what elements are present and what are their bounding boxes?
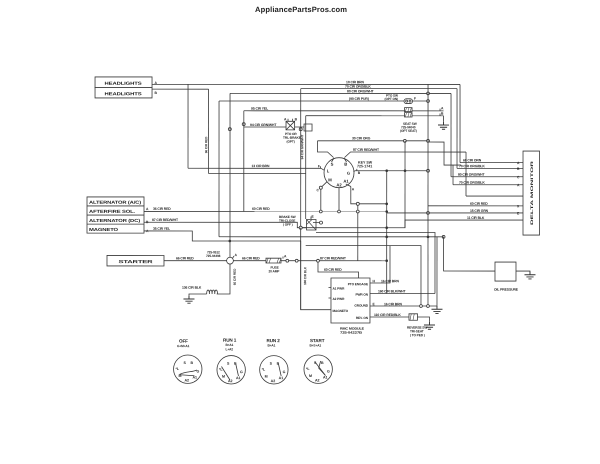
wire 160 CIR BLK/WHT pwr on <box>370 293 435 295</box>
vertical from headlight A <box>187 84 189 168</box>
svg-text:70 CIR ORG/BLK: 70 CIR ORG/BLK <box>459 181 485 185</box>
svg-text:(OPT ON): (OPT ON) <box>385 97 399 101</box>
pin A seat <box>439 109 441 111</box>
svg-text:136 CIR BLK: 136 CIR BLK <box>182 286 202 290</box>
delta row blank <box>466 195 523 197</box>
A1 drop and jog <box>351 187 387 204</box>
bottom switch position circle RUN 1 <box>217 356 245 384</box>
wire 16 CIR BRN pto engage <box>370 246 390 283</box>
terminal G <box>354 171 355 172</box>
svg-text:B: B <box>358 171 361 175</box>
svg-text:GROUND: GROUND <box>354 304 368 308</box>
svg-text:94 CIR GRN/WHT: 94 CIR GRN/WHT <box>300 135 304 160</box>
svg-text:PWR ON: PWR ON <box>355 293 368 297</box>
svg-text:HEADLIGHTS: HEADLIGHTS <box>105 81 142 86</box>
A2 drop to bus <box>338 189 340 212</box>
wire 70 CIR ORG/BLK upper rail <box>301 88 457 90</box>
headlight connector box 2 <box>95 87 152 98</box>
delta row A 60 CIR ORN <box>460 162 523 164</box>
svg-text:36 CIR RED: 36 CIR RED <box>153 207 171 211</box>
svg-text:B: B <box>190 361 193 365</box>
svg-text:100 CIR BLK: 100 CIR BLK <box>303 266 307 285</box>
alternator connector block <box>87 197 144 233</box>
svg-text:87 CIR RED/WHT: 87 CIR RED/WHT <box>320 256 347 260</box>
svg-text:B: B <box>155 91 158 95</box>
svg-text:C: C <box>517 175 520 179</box>
svg-text:M: M <box>222 375 225 379</box>
svg-text:A2 PWR: A2 PWR <box>332 297 345 301</box>
wire 136 CIR BLK <box>189 294 207 296</box>
svg-text:( TO PED ): ( TO PED ) <box>410 333 425 337</box>
svg-text:A: A <box>441 106 444 110</box>
node 30 ORG / v428 <box>427 139 430 142</box>
svg-text:E: E <box>517 211 520 215</box>
wire 110 CIR RED/BLK rev on <box>370 316 409 318</box>
svg-text:A: A <box>352 187 355 191</box>
svg-text:60 CIR RED: 60 CIR RED <box>470 202 488 206</box>
vertical x428 long <box>427 84 429 306</box>
wire 87 CIR RED/WHT from key B <box>345 152 467 158</box>
riser to S terminal <box>318 141 334 158</box>
wire 13 CIR BRN to key L <box>188 167 321 169</box>
svg-text:A: A <box>517 161 520 165</box>
svg-text:A: A <box>284 117 287 121</box>
bottom switch position circle START <box>304 355 332 383</box>
svg-text:G+M+A1: G+M+A1 <box>177 344 190 348</box>
seat row B wire <box>306 115 444 117</box>
wire 87 CIR RED/WHT alt <box>144 222 299 227</box>
vertical 90 PUR riser <box>218 101 220 237</box>
wire 35 CIR YEL magneto to RMC <box>144 231 301 241</box>
M drop to bus <box>319 186 322 189</box>
svg-text:A1: A1 <box>343 179 349 184</box>
svg-text:B: B <box>295 117 298 121</box>
svg-text:725-04227B: 725-04227B <box>340 331 363 335</box>
wire brake to v435 <box>316 233 435 294</box>
wire 30 CIR ORG <box>318 140 429 142</box>
svg-text:60 CIR RED: 60 CIR RED <box>324 268 342 272</box>
delta row E 15 CIR GRN <box>387 212 523 214</box>
svg-text:G: G <box>327 370 330 374</box>
svg-text:20 AMP: 20 AMP <box>268 269 280 273</box>
seat switch connector top <box>405 108 413 112</box>
svg-text:725-1741: 725-1741 <box>357 164 372 168</box>
svg-text:16 CIR BRN: 16 CIR BRN <box>384 302 402 306</box>
svg-text:110 CIR RED/BLK: 110 CIR RED/BLK <box>374 313 401 317</box>
delta row X 60 CIR RED <box>428 205 523 207</box>
svg-text:A1: A1 <box>279 376 284 380</box>
right riser x453 <box>428 142 461 165</box>
seat ground drop <box>443 116 445 122</box>
ground RMC <box>431 306 442 313</box>
svg-text:60 CIR RED: 60 CIR RED <box>252 207 270 211</box>
svg-text:16 CIR BRN: 16 CIR BRN <box>381 279 399 283</box>
key switch U1 body <box>324 158 354 188</box>
headlight connector box 1 <box>95 77 152 88</box>
svg-text:F: F <box>318 164 320 168</box>
vertical x386 bus <box>386 171 388 294</box>
svg-text:66 CIR RED: 66 CIR RED <box>242 256 260 260</box>
svg-text:A2: A2 <box>271 379 276 383</box>
delta row B 70 CIR ORG/BLK <box>457 167 523 169</box>
delta monitor box <box>523 151 540 235</box>
terminal A1 <box>346 184 351 187</box>
svg-text:MAGNETO: MAGNETO <box>89 227 119 232</box>
svg-text:A: A <box>234 253 237 257</box>
svg-text:80 CIR ORG/WHT: 80 CIR ORG/WHT <box>458 173 486 177</box>
svg-text:( OFF ): ( OFF ) <box>283 223 293 227</box>
wire headlight B <box>152 88 209 90</box>
svg-text:STARTER: STARTER <box>118 259 154 264</box>
terminal A2 <box>338 188 340 189</box>
terminal M <box>321 182 327 188</box>
connector pin box right of 94 wire <box>304 124 312 131</box>
svg-text:S: S <box>331 162 334 167</box>
svg-text:A2: A2 <box>184 378 189 382</box>
right riser x460 <box>459 84 461 162</box>
svg-text:B: B <box>441 112 444 116</box>
y236.8 rail extension to oil tap <box>437 236 444 238</box>
svg-text:B+A1: B+A1 <box>225 343 233 347</box>
svg-text:OIL PRESSURE: OIL PRESSURE <box>494 288 519 292</box>
svg-text:DELTA MONITOR: DELTA MONITOR <box>530 160 534 225</box>
svg-text:C: C <box>317 188 320 192</box>
svg-text:G: G <box>240 370 243 374</box>
svg-text:10 CIR BRN: 10 CIR BRN <box>346 80 364 84</box>
terminal L <box>321 168 325 170</box>
battery negative drop <box>217 264 230 294</box>
svg-text:35 CIR YEL: 35 CIR YEL <box>153 227 170 231</box>
starter box <box>107 255 164 266</box>
svg-text:60 CIR ORN: 60 CIR ORN <box>463 158 482 162</box>
node 30 ORG / x404 <box>403 139 406 142</box>
svg-text:160 CIR BLK/WHT: 160 CIR BLK/WHT <box>378 289 407 293</box>
node on v230 <box>228 128 231 131</box>
vertical 80 ORG/WHT riser <box>229 93 231 257</box>
RMC module U2 <box>331 278 370 323</box>
svg-text:13 CIR BRN: 13 CIR BRN <box>252 164 270 168</box>
bottom switch position circle OFF <box>174 355 202 383</box>
svg-text:RUN 1: RUN 1 <box>223 338 237 343</box>
seat switch connector bottom <box>405 113 413 117</box>
PTO switch connector <box>404 99 413 104</box>
oil pressure tap <box>442 235 445 238</box>
svg-text:66 CIR RED: 66 CIR RED <box>233 268 237 285</box>
right riser x466 <box>465 152 467 196</box>
svg-text:A1 PWR: A1 PWR <box>332 287 345 291</box>
svg-text:MAGNETO: MAGNETO <box>332 309 348 313</box>
svg-text:A: A <box>146 207 149 211</box>
vertical seat B riser x305 <box>305 116 307 219</box>
svg-text:RUN 2: RUN 2 <box>266 338 280 343</box>
svg-text:AFTERFIRE SOL.: AFTERFIRE SOL. <box>89 209 135 214</box>
wire y245.6 to ground riser <box>306 246 421 306</box>
svg-text:80 CIR ORG/WHT: 80 CIR ORG/WHT <box>347 89 375 93</box>
svg-text:M: M <box>309 374 312 378</box>
ground battery <box>183 296 194 303</box>
right riser x451 <box>450 93 452 176</box>
svg-text:L+A2: L+A2 <box>225 347 233 351</box>
battery coil <box>207 290 218 294</box>
svg-text:(OPT): (OPT) <box>287 140 295 144</box>
magneto wire drop to RMC <box>301 241 331 310</box>
svg-text:B+S+A1: B+S+A1 <box>309 344 321 348</box>
svg-text:A1: A1 <box>236 376 241 380</box>
vertical x437 ground drop <box>436 237 438 306</box>
svg-text:ALTERNATOR (DC): ALTERNATOR (DC) <box>89 218 141 223</box>
oil pressure ground <box>516 270 530 273</box>
svg-text:A2: A2 <box>228 379 233 383</box>
PTO/brake connector X-box <box>286 121 295 130</box>
svg-text:725-04408: 725-04408 <box>206 254 221 258</box>
delta row C 80 CIR ORG/WHT <box>451 176 523 178</box>
ground reverse <box>424 322 435 329</box>
wire 90 CIR PUR <box>219 100 404 102</box>
svg-text:A1: A1 <box>323 376 328 380</box>
pin B seat <box>439 114 441 116</box>
svg-text:REV. ON: REV. ON <box>356 316 369 320</box>
fuse F1 <box>266 258 281 263</box>
svg-text:L: L <box>327 168 330 173</box>
wire 66 CIR RED starter <box>164 260 227 262</box>
wire 94 CIR GRN/WHT <box>244 126 305 128</box>
wire 80 CIR ORG/WHT rail <box>230 92 451 94</box>
svg-text:94 CIR GRN/WHT: 94 CIR GRN/WHT <box>250 123 277 127</box>
svg-text:F: F <box>414 97 416 101</box>
svg-text:15 CIR GRN: 15 CIR GRN <box>470 209 489 213</box>
svg-text:G: G <box>347 171 350 176</box>
pin stubs left of RMC <box>328 288 331 299</box>
svg-text:A2: A2 <box>315 379 320 383</box>
wire 11 CIR BLK under brake <box>301 220 523 229</box>
terminal S <box>332 158 335 162</box>
node on v300 <box>299 128 302 131</box>
svg-text:M: M <box>328 177 332 182</box>
oil pressure switch box <box>495 262 516 281</box>
svg-text:G: G <box>283 370 286 374</box>
battery stud B1 <box>227 257 234 264</box>
wire 95 CIR YEL / seat row A <box>244 110 444 112</box>
vertical from headlight B <box>208 89 210 173</box>
svg-text:E: E <box>312 215 315 219</box>
svg-text:A: A <box>517 183 520 187</box>
junction v428 top <box>427 92 430 95</box>
svg-text:30 CIR ORG: 30 CIR ORG <box>352 136 371 140</box>
svg-text:PTO ENGAGE: PTO ENGAGE <box>348 282 368 286</box>
svg-text:(90 CIR PUR): (90 CIR PUR) <box>349 97 369 101</box>
svg-text:87 CIR RED/WHT: 87 CIR RED/WHT <box>353 148 380 152</box>
svg-text:HEADLIGHTS: HEADLIGHTS <box>105 91 142 96</box>
svg-text:X: X <box>517 204 520 208</box>
ground seat switch <box>438 122 449 129</box>
oil pressure feed <box>444 237 495 271</box>
vertical 95 YEL riser <box>243 111 245 212</box>
wire G to x428 <box>355 170 428 172</box>
reverse switch connector <box>409 314 418 320</box>
svg-text:A2: A2 <box>336 182 342 187</box>
svg-text:95 CIR YEL: 95 CIR YEL <box>251 107 268 111</box>
wire y236.8 rail <box>219 236 437 238</box>
svg-text:66 CIR RED: 66 CIR RED <box>176 256 194 260</box>
svg-text:B: B <box>321 361 324 365</box>
svg-text:70 CIR ORG/BLK: 70 CIR ORG/BLK <box>345 85 371 89</box>
svg-text:87 CIR RED/WHT: 87 CIR RED/WHT <box>152 218 179 222</box>
vertical x405 <box>404 141 406 228</box>
svg-text:96 CIR RED: 96 CIR RED <box>204 136 208 153</box>
right riser x457 <box>456 89 458 169</box>
svg-text:A: A <box>284 254 287 258</box>
svg-text:B: B <box>344 162 347 167</box>
brake switch <box>299 226 302 229</box>
wire 16 CIR BRN ground row <box>370 305 437 307</box>
svg-text:70 CIR ORG/BLK: 70 CIR ORG/BLK <box>459 164 485 168</box>
wire 60 CIR RED tap to RMC top <box>318 261 359 278</box>
wire 87 CIR RED to v386 <box>281 260 387 262</box>
wire 36 CIR RED / 60 CIR RED bus <box>144 210 387 212</box>
svg-text:OFF: OFF <box>179 339 188 344</box>
svg-text:AppliancePartsPros.com: AppliancePartsPros.com <box>255 5 347 14</box>
node open circle left of 94 wire <box>242 123 245 126</box>
svg-text:B: B <box>517 167 520 171</box>
svg-text:M: M <box>265 375 268 379</box>
delta row A2 70 CIR ORG/BLK <box>453 184 523 186</box>
svg-text:(OPT SEAT): (OPT SEAT) <box>400 129 417 133</box>
svg-text:ALTERNATOR (A/C): ALTERNATOR (A/C) <box>89 200 142 205</box>
vertical long x300 <box>300 89 302 310</box>
junction 90 PUR / v428 <box>427 100 430 103</box>
svg-text:START: START <box>310 338 325 343</box>
terminal B <box>344 158 347 162</box>
svg-text:11 CIR BLK: 11 CIR BLK <box>467 216 485 220</box>
wire 66 CIR RED to fuse <box>233 260 266 262</box>
bottom switch position circle RUN 2 <box>260 356 288 384</box>
wire lower left rail y173.5 <box>209 172 306 174</box>
svg-text:B+A1: B+A1 <box>267 343 275 347</box>
wire 10 CIR BRN headlight A top rail <box>152 83 460 85</box>
